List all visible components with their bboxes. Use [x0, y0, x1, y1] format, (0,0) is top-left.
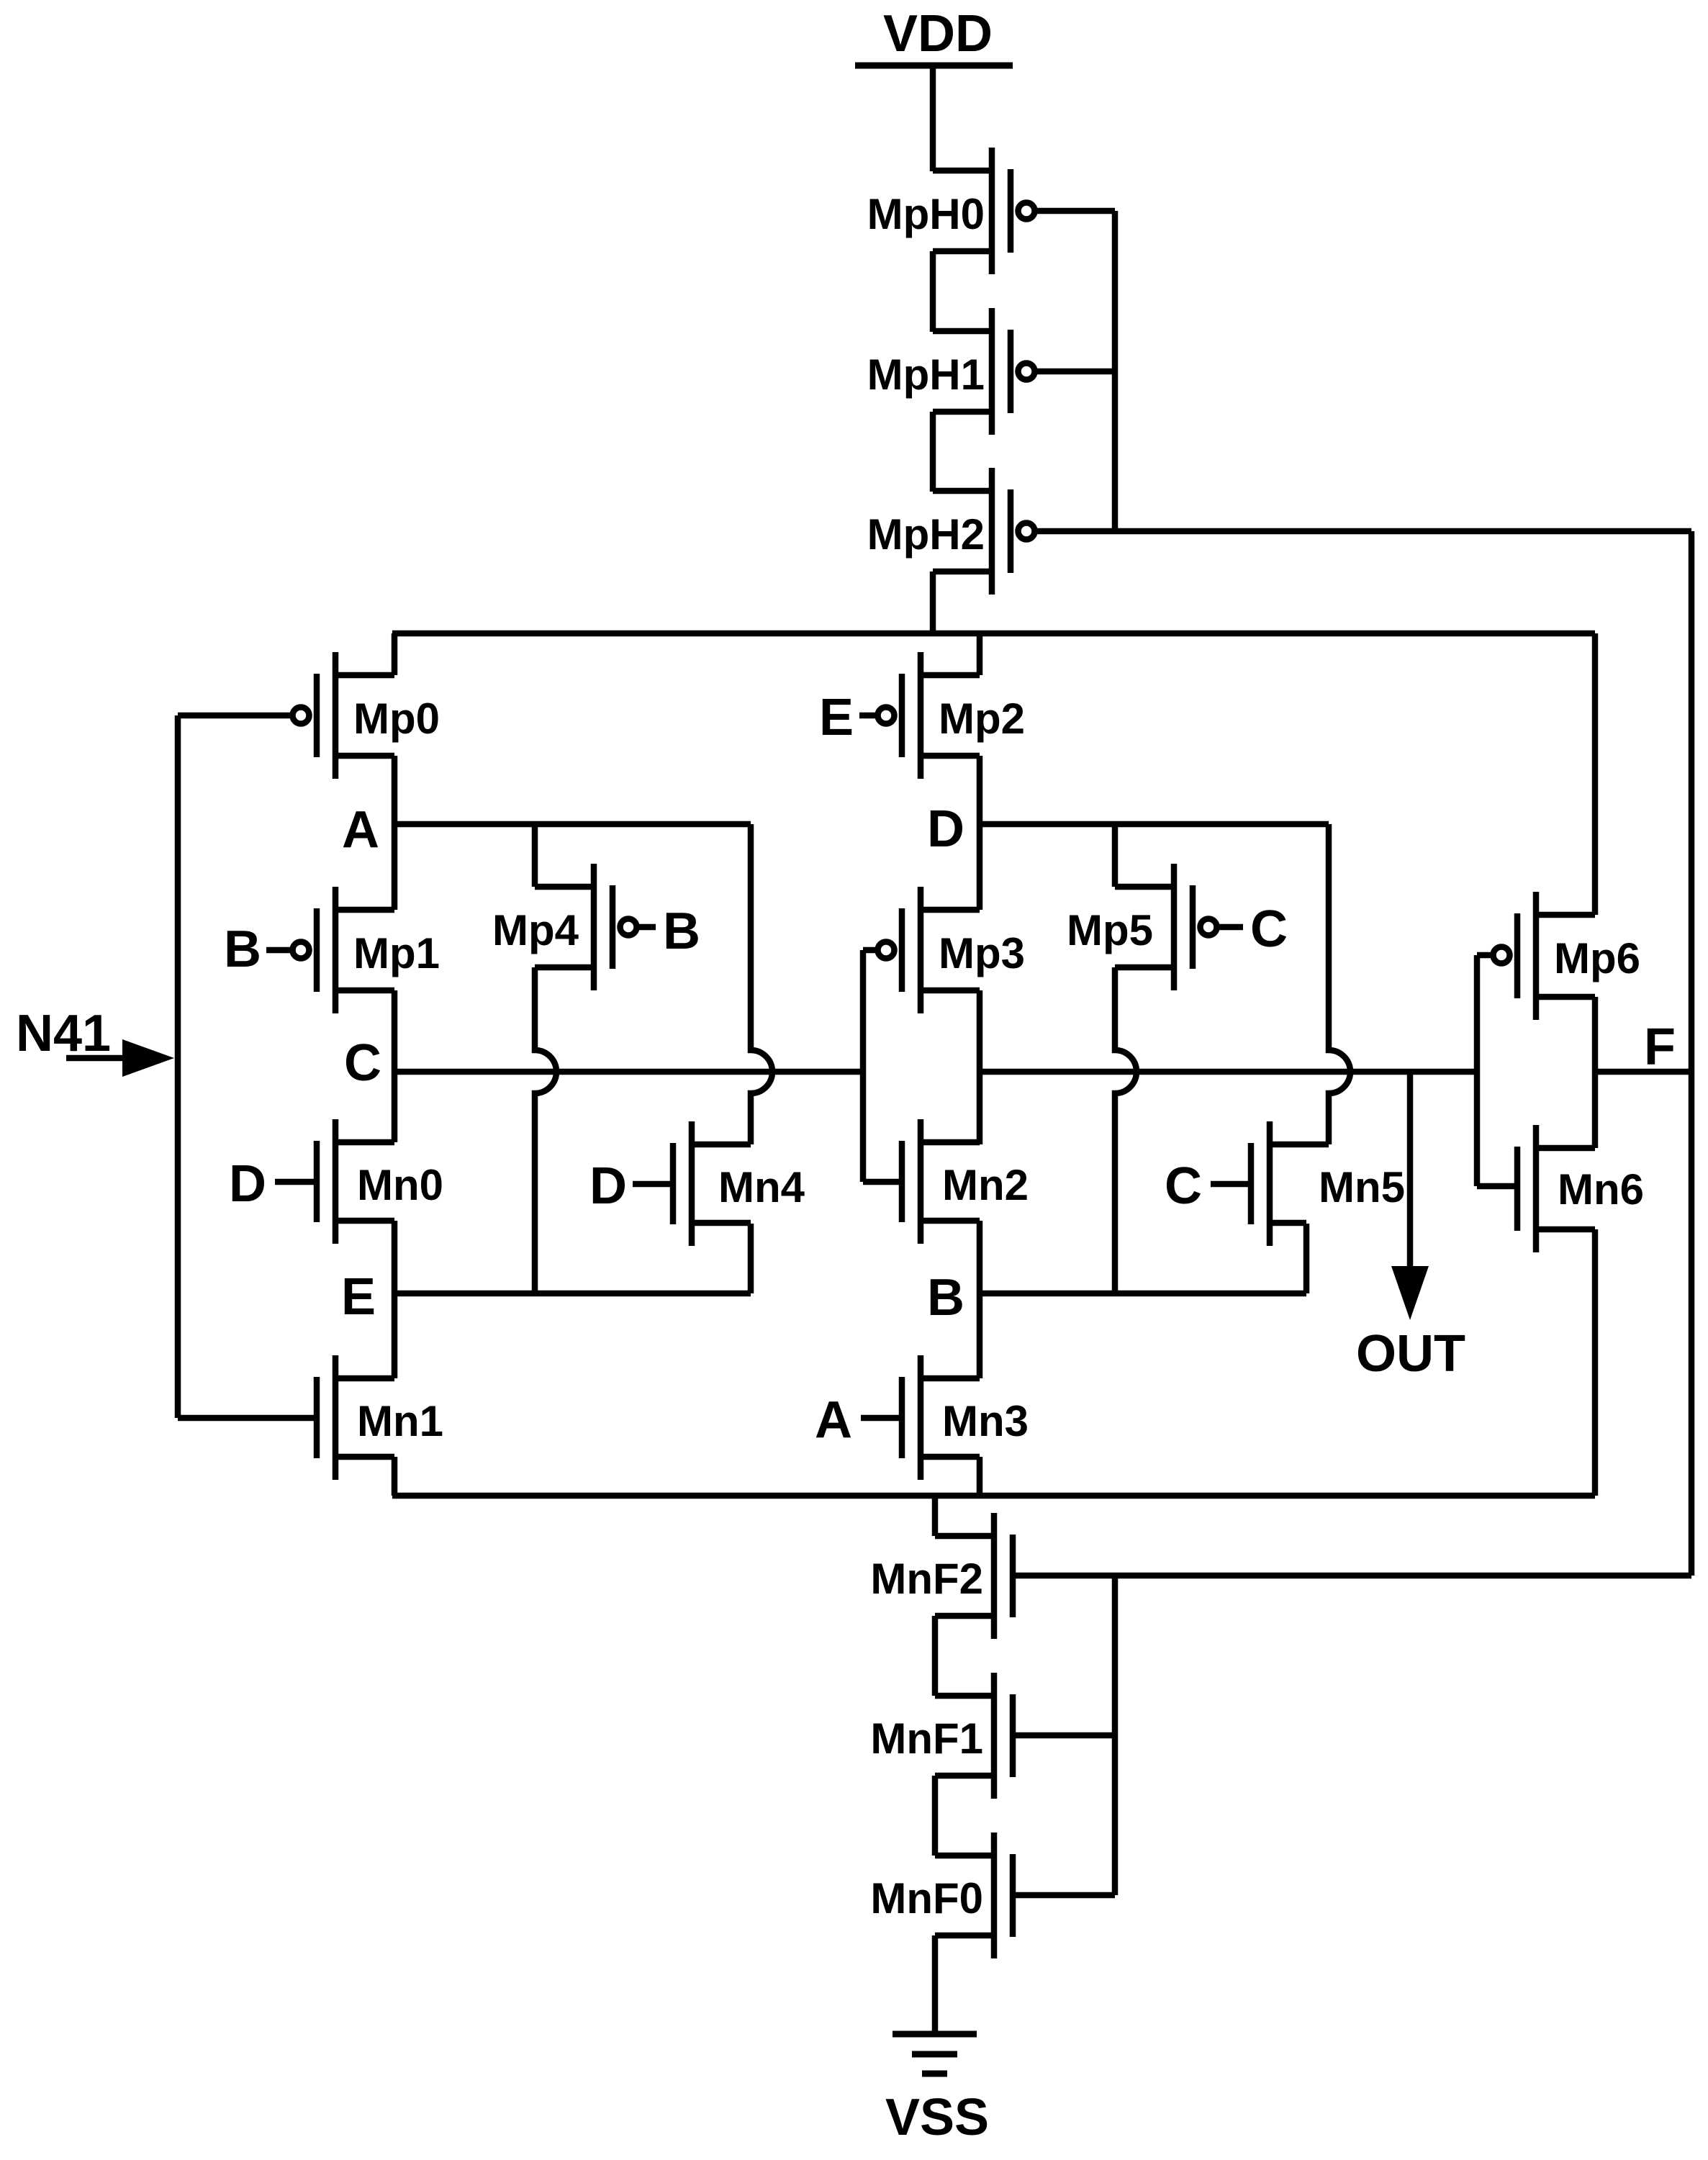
node B label at Mp4 gate: [663, 903, 700, 960]
svg-text:F: F: [1644, 1018, 1676, 1076]
svg-text:Mp1: Mp1: [353, 929, 440, 977]
wire bottom rail to MnF2 drain: [932, 1496, 939, 1536]
ground bar 1: [893, 2031, 977, 2038]
wire MnF0 source to ground: [932, 1935, 939, 2034]
wire Mn3 source to bottom rail: [977, 1457, 983, 1496]
wire gate tie to Mn6 gate: [1477, 1183, 1520, 1190]
wire node A to Mp4 source: [532, 824, 538, 887]
transistor Mn6: [1517, 1125, 1644, 1252]
wire N41 input vertical (Mp0/Mn1 gates): [175, 715, 181, 1418]
transistor Mn0: [317, 1119, 443, 1244]
transistor Mp6: [1477, 892, 1640, 1020]
svg-text:Mp2: Mp2: [939, 695, 1025, 743]
transistor Mp2: [859, 652, 1025, 779]
power VDD bar: [855, 63, 1013, 69]
node N41 label: [16, 1005, 111, 1062]
ground bar 2: [912, 2051, 957, 2058]
svg-text:D: D: [927, 800, 964, 858]
wire Mp0 drain through node A to Mp1 source: [392, 756, 398, 910]
wire node C row: [394, 1069, 862, 1075]
wire C to Mn5 gate: [1211, 1181, 1254, 1188]
svg-text:Mp6: Mp6: [1554, 934, 1640, 982]
svg-text:B: B: [663, 903, 700, 960]
svg-text:Mn1: Mn1: [357, 1397, 443, 1445]
svg-text:D: D: [229, 1155, 266, 1213]
wire MnF gate tie vertical: [1112, 1576, 1119, 1895]
wire B to Mp1 gate bubble: [266, 947, 292, 954]
node F: [1644, 1018, 1676, 1076]
node OUT label: [1356, 1325, 1465, 1383]
wire top rail (virtual VDD): [392, 631, 1595, 637]
wire node B row: [980, 1291, 1306, 1297]
node B: [927, 1269, 964, 1327]
power VDD label: [883, 5, 993, 63]
wire A to Mn3 gate: [861, 1415, 905, 1422]
transistor Mp4: [492, 864, 637, 990]
svg-text:N41: N41: [16, 1005, 111, 1062]
svg-text:B: B: [224, 921, 261, 978]
svg-text:A: A: [342, 801, 379, 859]
svg-text:B: B: [927, 1269, 964, 1327]
wire bottom rail (virtual VSS): [392, 1493, 1595, 1499]
wire node D to Mp5 source: [1112, 824, 1119, 887]
svg-text:D: D: [589, 1157, 627, 1215]
wire Mp1 drain through node C to Mn0 drain: [392, 990, 398, 1142]
node N41 arrow head: [122, 1039, 174, 1077]
transistor Mn1: [178, 1355, 443, 1480]
svg-text:VDD: VDD: [883, 5, 993, 63]
wire Mn2 source through node B to Mn3 drain: [977, 1221, 983, 1378]
transistor Mp0: [178, 652, 440, 779]
svg-text:OUT: OUT: [1356, 1325, 1465, 1383]
node B label at Mp1 gate: [224, 921, 261, 978]
wire N41 arrow shaft: [66, 1055, 130, 1062]
wire rail to Mp0 source: [392, 633, 398, 675]
wire node D row: [980, 821, 1329, 828]
node D label at Mn4 gate: [589, 1157, 627, 1215]
wire Mp3 drain through node F input to Mn2 drain: [977, 990, 983, 1144]
transistor MnF1: [870, 1673, 1115, 1799]
ground bar 3: [922, 2071, 947, 2077]
wire MpH0 drain to MpH1 source: [930, 251, 936, 332]
node C label at Mp5 gate: [1250, 900, 1288, 958]
svg-text:MpH2: MpH2: [867, 510, 985, 559]
node D: [927, 800, 964, 858]
wire Mp6 drain through node F to Mn6 drain: [1592, 997, 1599, 1148]
wire MpH1 drain to MpH2 source: [930, 412, 936, 492]
svg-text:Mn3: Mn3: [942, 1397, 1029, 1445]
transistor MnF0: [870, 1833, 1115, 1958]
wire rail to Mp2 source: [977, 633, 983, 675]
wire F input row (pass-gate output to inverter): [980, 1069, 1476, 1075]
svg-text:C: C: [1165, 1157, 1202, 1215]
transistor MpH2: [867, 468, 1691, 595]
node A label at Mn3 gate: [815, 1391, 852, 1449]
wire gate tie to Mn2 gate: [863, 1179, 905, 1185]
wire node A to Mn4 drain (hop over C): [751, 824, 772, 1144]
wire OUT stem: [1407, 1072, 1414, 1267]
svg-text:Mp4: Mp4: [492, 906, 579, 954]
wire Mn5 source to node B: [1303, 1224, 1310, 1293]
node C label at Mn5 gate: [1165, 1157, 1202, 1215]
svg-text:Mp3: Mp3: [939, 929, 1025, 977]
transistor Mn3: [902, 1355, 1029, 1480]
transistor MnF2: [870, 1513, 1691, 1639]
node D label at Mn0 gate: [229, 1155, 266, 1213]
svg-text:MpH0: MpH0: [867, 190, 985, 238]
node E label at Mp2 gate: [819, 689, 854, 746]
wire Mp3/Mn2 gate tie to node C: [860, 950, 867, 1182]
wire node E row: [394, 1291, 751, 1297]
transistor Mp3: [863, 887, 1025, 1013]
svg-text:MnF2: MnF2: [870, 1555, 983, 1603]
node A: [342, 801, 379, 859]
node OUT arrow head: [1391, 1266, 1429, 1320]
wire Mn4 source to node E: [748, 1224, 754, 1293]
svg-text:E: E: [341, 1268, 376, 1326]
svg-text:Mn4: Mn4: [718, 1163, 805, 1211]
transistor Mn5: [1251, 1121, 1405, 1246]
wire Mp2 drain through node D to Mp3 source: [977, 756, 983, 910]
wire Mn0 source through node E to Mn1 drain: [392, 1221, 398, 1378]
wire F feedback right vertical: [1689, 531, 1695, 1576]
svg-text:Mn5: Mn5: [1319, 1163, 1405, 1211]
node C: [344, 1034, 381, 1092]
transistor Mn4: [673, 1121, 805, 1246]
svg-text:Mn0: Mn0: [357, 1161, 443, 1209]
wire MnF1 source to MnF0 drain: [932, 1776, 939, 1856]
wire Mp4 drain to node E (hop over C): [535, 967, 556, 1293]
wire D to Mn0 gate: [275, 1179, 320, 1185]
wire rail to Mp6 source: [1592, 633, 1599, 915]
transistor MpH1: [867, 308, 1115, 435]
svg-text:MnF1: MnF1: [870, 1714, 983, 1763]
wire Mn1 source to bottom rail: [392, 1457, 398, 1496]
svg-text:Mp5: Mp5: [1067, 906, 1153, 954]
svg-text:C: C: [1250, 900, 1288, 958]
wire VDD to MpH0 source: [930, 63, 936, 171]
wire MpH2 drain to top rail: [930, 571, 936, 633]
svg-text:Mp0: Mp0: [353, 695, 440, 743]
wire Mn6 source to bottom rail: [1592, 1229, 1599, 1496]
transistor Mp1: [293, 887, 440, 1013]
wire D to Mn4 gate: [633, 1181, 676, 1188]
wire Mp6/Mn6 gate tie vertical: [1474, 955, 1481, 1186]
wire MnF2 source to MnF1 drain: [932, 1616, 939, 1696]
svg-text:Mn6: Mn6: [1558, 1165, 1644, 1214]
wire node A row: [394, 821, 751, 828]
transistor Mn2: [902, 1119, 1029, 1244]
wire Mp5 gate bubble to C: [1218, 924, 1243, 931]
svg-text:MpH1: MpH1: [867, 351, 985, 399]
wire Mp4 gate bubble to B: [638, 924, 656, 931]
transistor Mp5: [1067, 864, 1217, 990]
power VSS label: [885, 2089, 989, 2146]
svg-text:A: A: [815, 1391, 852, 1449]
wire node F row to feedback: [1595, 1069, 1691, 1075]
svg-text:MnF0: MnF0: [870, 1874, 983, 1922]
svg-text:VSS: VSS: [885, 2089, 989, 2146]
svg-text:C: C: [344, 1034, 381, 1092]
transistor MpH0: [867, 148, 1115, 274]
wire Mp5 drain to node B (hop over F input): [1115, 967, 1137, 1293]
svg-text:E: E: [819, 689, 854, 746]
wire MpH gate tie vertical: [1112, 211, 1119, 531]
node E: [341, 1268, 376, 1326]
svg-text:Mn2: Mn2: [942, 1161, 1029, 1209]
wire node D to Mn5 drain (hop over F input): [1329, 824, 1350, 1144]
